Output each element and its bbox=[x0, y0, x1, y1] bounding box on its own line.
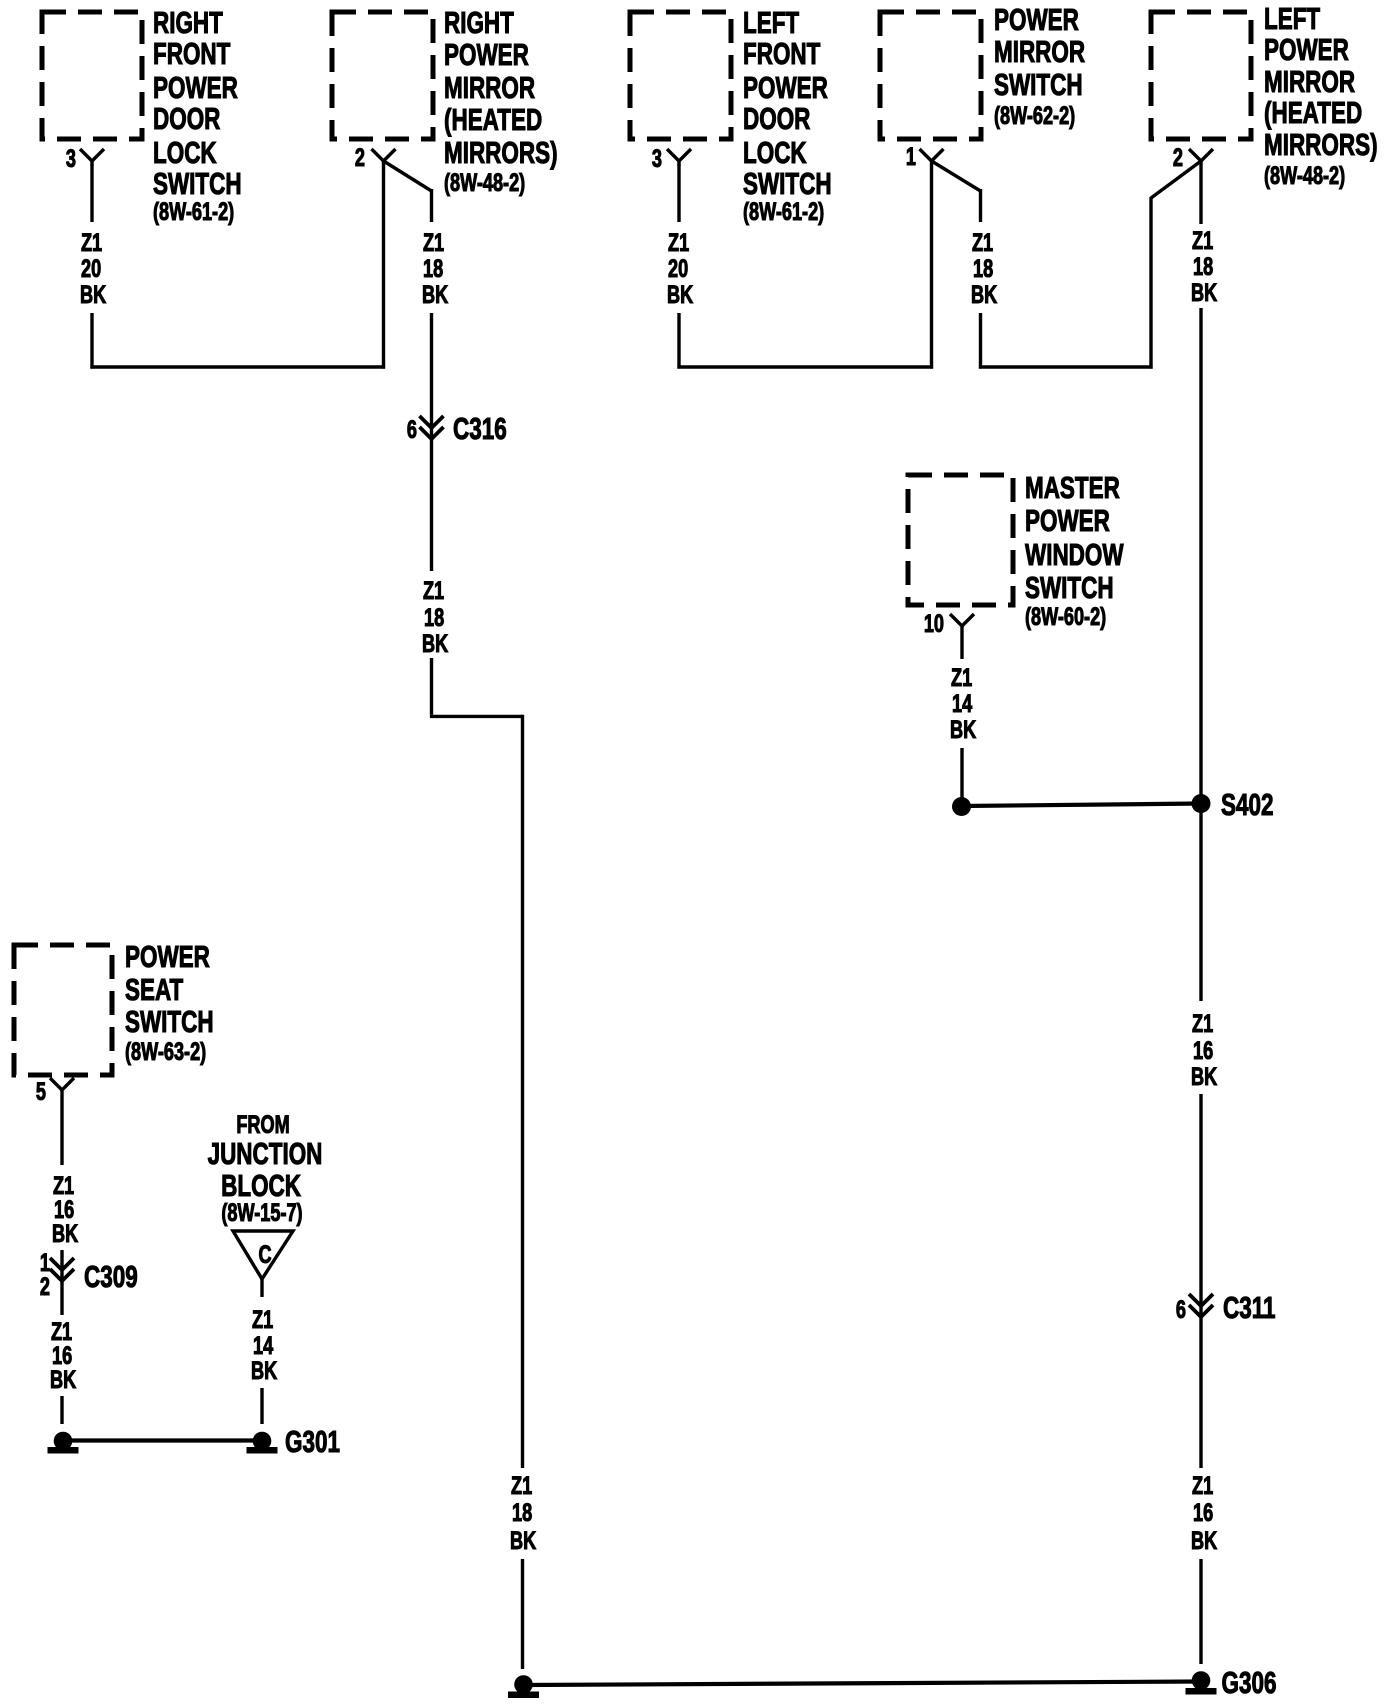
svg-text:BK: BK bbox=[52, 1219, 78, 1248]
ground G306 dot and label bbox=[1186, 1664, 1277, 1699]
connector box U6 MASTER POWER WINDOW SWITCH bbox=[908, 469, 1124, 630]
connector box U2 RIGHT POWER MIRROR (HEATED MIRRORS) bbox=[332, 4, 558, 196]
svg-text:C: C bbox=[258, 1240, 271, 1269]
wire jog from C316 branch over to long vertical run bbox=[430, 715, 523, 718]
pin 1 of POWER MIRROR SWITCH bbox=[906, 142, 944, 171]
svg-text:2: 2 bbox=[1173, 143, 1183, 172]
svg-text:Z1: Z1 bbox=[511, 1471, 532, 1500]
svg-text:SWITCH: SWITCH bbox=[743, 165, 832, 200]
wire diagonal branch up to pin 2 fork of left power mirror bbox=[1151, 161, 1201, 198]
svg-text:SWITCH: SWITCH bbox=[153, 165, 242, 200]
label FROM JUNCTION BLOCK bbox=[208, 1110, 323, 1227]
pin 10 of MASTER POWER WINDOW SWITCH bbox=[924, 609, 974, 638]
svg-text:BK: BK bbox=[422, 629, 448, 658]
svg-text:20: 20 bbox=[668, 254, 688, 283]
svg-text:(8W-63-2): (8W-63-2) bbox=[125, 1037, 206, 1066]
svg-text:Z1: Z1 bbox=[423, 576, 444, 605]
junction block feed symbol triangle C bbox=[233, 1231, 293, 1279]
svg-text:MIRROR: MIRROR bbox=[994, 33, 1085, 68]
svg-text:MIRROR: MIRROR bbox=[444, 69, 535, 104]
pin 2 of RIGHT POWER MIRROR bbox=[355, 143, 396, 172]
svg-text:WINDOW: WINDOW bbox=[1025, 536, 1124, 571]
connector box U7 POWER SEAT SWITCH bbox=[14, 938, 214, 1075]
wire Z1 18 BK on power mirror switch branch bbox=[971, 189, 997, 369]
wire Z1 16 BK between S402 and C311 bbox=[1191, 1009, 1217, 1318]
pin 3 of RIGHT FRONT POWER DOOR LOCK SWITCH bbox=[66, 144, 104, 173]
wire vertical from power mirror switch pin 1 down to splice joint bbox=[930, 161, 933, 369]
svg-text:5: 5 bbox=[36, 1077, 46, 1106]
svg-text:BK: BK bbox=[1191, 278, 1217, 307]
wire Z1 18 BK from left power mirror pin 2 down bbox=[1191, 161, 1217, 1001]
svg-text:18: 18 bbox=[423, 254, 443, 283]
svg-text:SWITCH: SWITCH bbox=[125, 1003, 214, 1038]
svg-text:18: 18 bbox=[424, 603, 444, 632]
connector box U3 LEFT FRONT POWER DOOR LOCK SWITCH bbox=[630, 4, 832, 225]
svg-text:POWER: POWER bbox=[125, 938, 210, 973]
svg-text:(HEATED: (HEATED bbox=[1264, 94, 1362, 129]
svg-text:BK: BK bbox=[1191, 1526, 1217, 1555]
svg-text:BK: BK bbox=[1191, 1062, 1217, 1091]
wire Z1 14 BK from junction block down to ground G301 bbox=[251, 1279, 277, 1424]
svg-text:BK: BK bbox=[667, 280, 693, 309]
svg-text:6: 6 bbox=[407, 415, 417, 444]
pin 3 of LEFT FRONT POWER DOOR LOCK SWITCH bbox=[652, 144, 691, 173]
ground G301 dot and label bbox=[247, 1423, 340, 1458]
svg-text:G306: G306 bbox=[1222, 1664, 1277, 1699]
svg-text:BK: BK bbox=[80, 280, 106, 309]
svg-text:BK: BK bbox=[422, 280, 448, 309]
wire Z1 20 BK from left door lock pin 3 bbox=[667, 164, 693, 369]
svg-text:MIRRORS): MIRRORS) bbox=[444, 134, 558, 169]
svg-text:Z1: Z1 bbox=[252, 1305, 273, 1334]
svg-text:Z1: Z1 bbox=[972, 228, 993, 257]
wire Z1 16 BK below C311 down to ground G306 bbox=[1191, 1317, 1217, 1664]
svg-text:SEAT: SEAT bbox=[125, 971, 184, 1006]
svg-text:14: 14 bbox=[952, 689, 973, 718]
svg-text:16: 16 bbox=[1193, 1498, 1213, 1527]
wire horizontal ground link to G306 bbox=[524, 1682, 1202, 1686]
svg-text:10: 10 bbox=[924, 609, 944, 638]
wire Z1 18 BK above C316 bbox=[422, 189, 448, 440]
svg-text:POWER: POWER bbox=[444, 36, 529, 71]
svg-text:DOOR: DOOR bbox=[743, 100, 810, 135]
connector box U1 RIGHT FRONT POWER DOOR LOCK SWITCH bbox=[42, 4, 242, 225]
wire horizontal joining pin 3 wire to pin 2 wire of right power mirror bbox=[90, 365, 385, 368]
svg-text:2: 2 bbox=[40, 1272, 50, 1301]
svg-text:POWER: POWER bbox=[1025, 502, 1110, 537]
connector C309 pins 1 and 2 bbox=[40, 1248, 138, 1301]
svg-text:Z1: Z1 bbox=[1192, 226, 1213, 255]
wire diagonal branch from pin 1 fork bbox=[932, 161, 981, 191]
wire Z1 18 BK above ground G306 (left leg) bbox=[510, 1471, 536, 1669]
svg-text:18: 18 bbox=[512, 1498, 532, 1527]
connector box U5 LEFT POWER MIRROR (HEATED MIRRORS) bbox=[1151, 0, 1378, 189]
svg-text:(8W-48-2): (8W-48-2) bbox=[1264, 161, 1345, 190]
svg-text:BK: BK bbox=[50, 1365, 76, 1394]
svg-text:Z1: Z1 bbox=[423, 228, 444, 257]
svg-text:RIGHT: RIGHT bbox=[444, 4, 514, 39]
svg-text:FRONT: FRONT bbox=[743, 35, 821, 70]
ground G301 splice dot left bbox=[48, 1432, 79, 1454]
wire long vertical run down left-center of page bbox=[521, 715, 524, 1468]
svg-text:POWER: POWER bbox=[994, 1, 1079, 36]
svg-text:16: 16 bbox=[1193, 1036, 1213, 1065]
svg-text:POWER: POWER bbox=[1264, 31, 1349, 66]
svg-text:Z1: Z1 bbox=[951, 663, 972, 692]
svg-text:BK: BK bbox=[510, 1526, 536, 1555]
svg-text:(8W-15-7): (8W-15-7) bbox=[221, 1198, 302, 1227]
wire Z1 14 BK from pin 10 down to splice S402 bbox=[950, 626, 976, 798]
svg-text:G301: G301 bbox=[285, 1423, 340, 1458]
svg-text:S402: S402 bbox=[1221, 786, 1273, 821]
svg-text:6: 6 bbox=[1176, 1295, 1186, 1324]
svg-text:BK: BK bbox=[950, 715, 976, 744]
splice S402 junction dot on master window wire bbox=[952, 797, 971, 816]
svg-text:(8W-61-2): (8W-61-2) bbox=[153, 197, 234, 226]
svg-text:Z1: Z1 bbox=[668, 228, 689, 257]
pin 5 of POWER SEAT SWITCH bbox=[36, 1077, 74, 1106]
svg-text:20: 20 bbox=[81, 254, 101, 283]
splice S402 dot on main vertical run bbox=[1192, 786, 1274, 821]
svg-text:SWITCH: SWITCH bbox=[1025, 569, 1114, 604]
svg-text:Z1: Z1 bbox=[1192, 1471, 1213, 1500]
ground G306 splice dot left leg bbox=[508, 1675, 539, 1698]
svg-text:MIRRORS): MIRRORS) bbox=[1264, 126, 1378, 161]
pin 2 of LEFT POWER MIRROR bbox=[1173, 143, 1213, 172]
wire horizontal ground link to G301 bbox=[63, 1438, 262, 1442]
svg-text:(8W-60-2): (8W-60-2) bbox=[1025, 602, 1106, 631]
svg-text:C316: C316 bbox=[453, 410, 507, 445]
wire vertical rising to left power mirror pin 2 fork bbox=[1149, 197, 1152, 369]
svg-text:1: 1 bbox=[906, 142, 916, 171]
wire vertical from pin 2 fork down to splice joint bbox=[382, 161, 385, 369]
svg-text:3: 3 bbox=[652, 144, 662, 173]
wire Z1 20 BK from pin 3 down to splice bbox=[80, 164, 106, 369]
svg-text:FRONT: FRONT bbox=[153, 35, 231, 70]
svg-text:MASTER: MASTER bbox=[1025, 469, 1120, 504]
connector C311 pin 6 bbox=[1176, 1289, 1276, 1324]
wire Z1 18 BK below C316 bbox=[422, 439, 448, 715]
connector box U4 POWER MIRROR SWITCH bbox=[880, 1, 1085, 139]
svg-text:Z1: Z1 bbox=[1192, 1009, 1213, 1038]
svg-text:BK: BK bbox=[251, 1356, 277, 1385]
svg-text:(8W-48-2): (8W-48-2) bbox=[444, 168, 525, 197]
svg-text:C309: C309 bbox=[84, 1258, 138, 1293]
svg-text:(8W-62-2): (8W-62-2) bbox=[994, 101, 1075, 130]
connector C316 pin 6 bbox=[407, 410, 507, 445]
wire Z1 16 BK from pin 5 down to C309 bbox=[52, 1090, 78, 1282]
svg-text:JUNCTION: JUNCTION bbox=[208, 1135, 323, 1170]
wire horizontal splice link to S402 bbox=[962, 804, 1202, 807]
svg-text:3: 3 bbox=[66, 144, 76, 173]
svg-text:Z1: Z1 bbox=[81, 228, 102, 257]
wire Z1 16 BK below C309 down to ground G301 bbox=[50, 1281, 76, 1424]
svg-text:SWITCH: SWITCH bbox=[994, 66, 1083, 101]
svg-text:BK: BK bbox=[971, 280, 997, 309]
svg-text:(HEATED: (HEATED bbox=[444, 101, 542, 136]
svg-text:(8W-61-2): (8W-61-2) bbox=[743, 197, 824, 226]
svg-text:18: 18 bbox=[1193, 252, 1213, 281]
svg-text:C311: C311 bbox=[1223, 1289, 1275, 1324]
wire horizontal joining left door lock to power mirror switch pin 1 bbox=[677, 365, 933, 368]
svg-text:18: 18 bbox=[973, 254, 993, 283]
svg-text:DOOR: DOOR bbox=[153, 100, 220, 135]
wire diagonal branch from pin 2 fork toward C316 bbox=[384, 161, 432, 191]
wire horizontal joining mirror switch branch to left power mirror branch bbox=[979, 365, 1153, 368]
svg-text:2: 2 bbox=[355, 143, 365, 172]
